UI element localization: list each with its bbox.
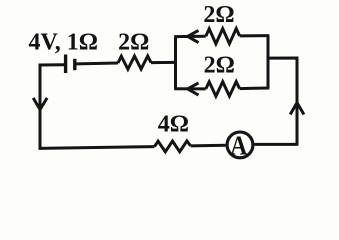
wire top branch left segment	[174, 35, 206, 38]
svg-text:2Ω: 2Ω	[204, 53, 235, 79]
wire bottom-right corner to ammeter	[254, 143, 297, 146]
wire bottom branch right segment	[240, 87, 270, 91]
arrow current bottom branch (points left)	[188, 83, 199, 95]
battery V (cell) 4V,1ohm : long plate	[64, 55, 67, 74]
node right bar of parallel combination	[267, 36, 270, 89]
resistor R1 2 ohm (series) zigzag	[118, 56, 151, 69]
wire bottom branch left segment	[174, 87, 206, 90]
resistor R4 4 ohm (bottom) zigzag	[155, 141, 191, 152]
wire battery to series resistor	[77, 62, 119, 66]
svg-text:4V, 1Ω: 4V, 1Ω	[29, 30, 98, 56]
wire resistor to parallel node	[151, 61, 177, 64]
svg-text:4Ω: 4Ω	[158, 111, 189, 137]
battery short plate	[73, 59, 76, 70]
resistor R3 2 ohm (bottom branch) zigzag	[206, 82, 240, 97]
arrow current top branch (points left)	[188, 30, 199, 42]
arrow current left side (points down)	[33, 98, 47, 110]
node left bar of parallel combination	[174, 37, 177, 89]
wire left loop: battery to top-left corner, down left side, along bottom to 4-ohm resistor	[40, 65, 155, 149]
ammeter A (circle)	[227, 132, 253, 158]
wire top branch right segment	[240, 34, 270, 37]
svg-text:2Ω: 2Ω	[203, 2, 234, 28]
svg-text:2Ω: 2Ω	[118, 30, 149, 56]
wire from parallel combination to right side, down to bottom-right corner	[268, 58, 297, 146]
resistor R2 2 ohm (top branch) zigzag	[206, 29, 240, 44]
arrow current right side (points up)	[290, 103, 304, 115]
wire ammeter to 4-ohm resistor	[191, 144, 226, 148]
svg-text:A: A	[230, 129, 247, 160]
